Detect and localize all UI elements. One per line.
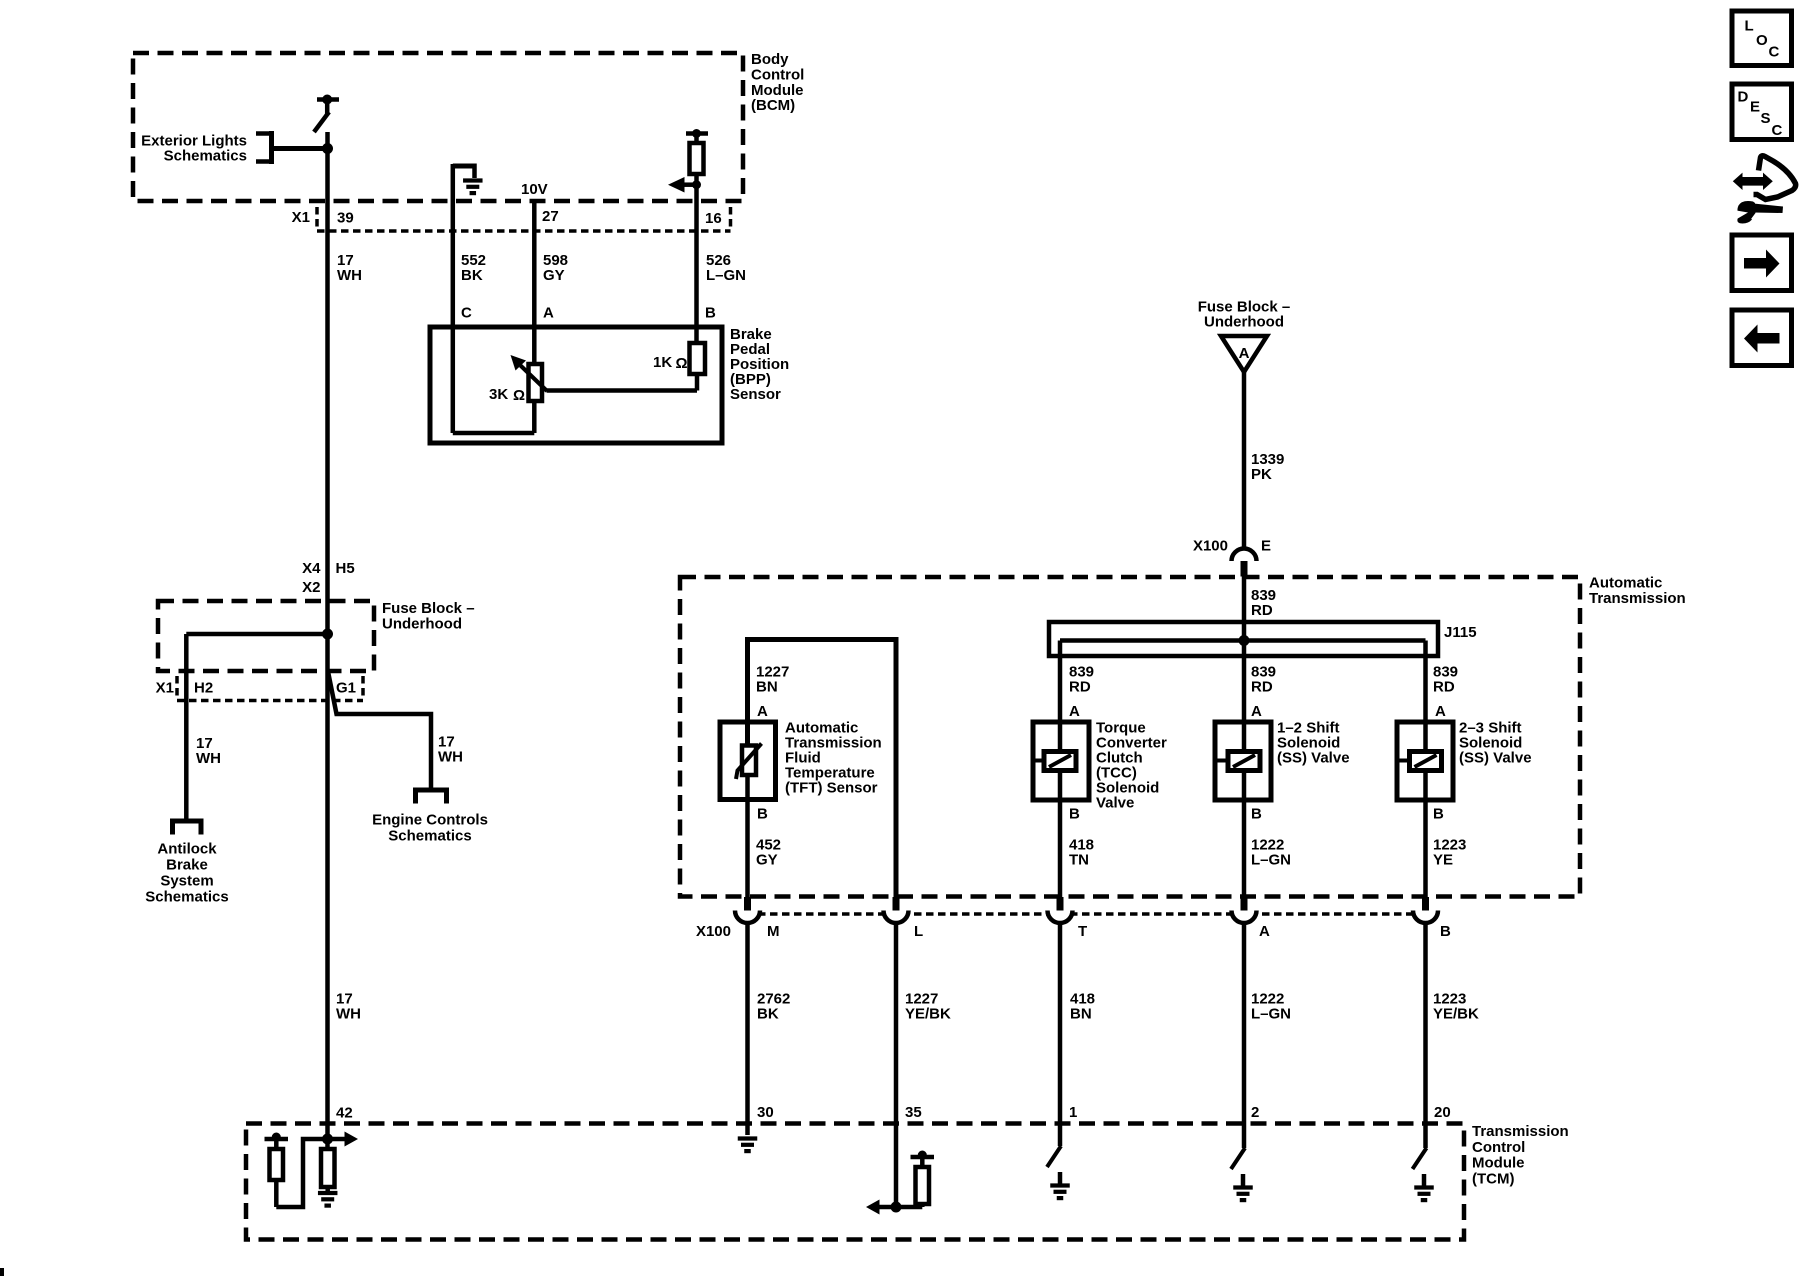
wire: Exterior Lights to switch node: [272, 146, 328, 151]
dashed box: Fuse Block - Underhood: [158, 601, 374, 671]
svg-text:Transmission: Transmission: [1472, 1123, 1569, 1140]
dashed box: Body Control Module (BCM): [133, 53, 743, 201]
svg-text:(TCM): (TCM): [1472, 1170, 1514, 1187]
svg-text:2: 2: [1251, 1104, 1259, 1121]
label: circuit 1227 BN: [756, 664, 789, 696]
svg-text:A: A: [1239, 345, 1250, 362]
label: Engine Controls Schematics: [372, 812, 488, 845]
label: circuit 418 BN: [1070, 991, 1095, 1023]
label: circuit 17 WH (engine controls): [438, 734, 463, 766]
fuse feed triangle A: [1221, 336, 1267, 372]
svg-text:Underhood: Underhood: [1204, 314, 1284, 331]
svg-text:B: B: [1251, 806, 1262, 823]
driver switch at TCM pin 2: [1231, 1148, 1245, 1169]
svg-text:B: B: [705, 305, 716, 322]
svg-text:A: A: [1251, 703, 1262, 720]
wire: 1339 PK vertical: [1242, 372, 1247, 550]
svg-text:A: A: [1259, 923, 1270, 940]
label: circuit 1222 L-GN (lower): [1251, 991, 1291, 1023]
svg-text:RD: RD: [1069, 679, 1091, 696]
label: X1 (fuse block): [156, 680, 174, 697]
driver switch at TCM pin 1: [1047, 1146, 1061, 1167]
svg-text:B: B: [1440, 923, 1451, 940]
label: 1-2 Shift Solenoid (SS) Valve: [1277, 720, 1350, 767]
wire: 1223 YE (2-3 SS pin B to X100 pin B): [1423, 771, 1428, 898]
component: 1-2 Shift Solenoid (SS) Valve: [1215, 722, 1271, 800]
wire: 452 GY (TFT pin B to X100 pin M): [745, 775, 750, 897]
label: pin L: [914, 923, 923, 940]
svg-text:Control: Control: [1472, 1139, 1525, 1156]
wire: fuse block internal to H2: [186, 634, 327, 819]
wire: 552 BK vertical into BPP pin C: [451, 164, 456, 433]
svg-text:L–GN: L–GN: [1251, 1006, 1291, 1023]
svg-text:Sensor: Sensor: [730, 386, 781, 403]
label: 2-3 SS pin B: [1433, 806, 1444, 823]
svg-text:O: O: [1756, 32, 1768, 49]
svg-text:Schematics: Schematics: [164, 148, 247, 165]
svg-text:X100: X100: [696, 923, 731, 940]
svg-text:L: L: [914, 923, 923, 940]
driver switch at TCM pin 20: [1413, 1148, 1427, 1169]
svg-text:A: A: [1069, 703, 1080, 720]
label: pin 39: [337, 210, 354, 227]
label: pin G1: [336, 680, 356, 697]
label: circuit 17 WH (antilock): [196, 735, 221, 767]
svg-text:27: 27: [542, 208, 559, 225]
wire: TCM 35 branch to pull-up resistor: [896, 1204, 922, 1207]
label: pin T: [1078, 923, 1087, 940]
svg-text:Ω: Ω: [676, 355, 688, 372]
label: 1K ohm: [653, 354, 688, 372]
connector symbol X100-M: [735, 897, 760, 923]
svg-text:C: C: [1772, 122, 1783, 139]
svg-text:WH: WH: [196, 750, 221, 767]
svg-text:L–GN: L–GN: [1251, 852, 1291, 869]
label: H5: [336, 560, 355, 577]
connector symbol X100-E: [1232, 548, 1257, 576]
wire: BPP internal B leg: [695, 374, 700, 391]
svg-text:WH: WH: [438, 749, 463, 766]
svg-text:E: E: [1261, 538, 1271, 555]
icon: double arrow with wrench: [1733, 156, 1796, 224]
label: TFT pin B: [757, 806, 768, 823]
label: circuit 598 GY: [543, 252, 568, 284]
supply bar with dot (TCM 35 pull-up): [911, 1151, 935, 1160]
connector X1 bracket (fuse block, dashed): [177, 676, 363, 697]
svg-text:RD: RD: [1433, 679, 1455, 696]
svg-text:42: 42: [336, 1105, 353, 1122]
svg-text:H5: H5: [336, 560, 355, 577]
label: circuit 1227 YE/BK: [905, 991, 951, 1023]
svg-text:H2: H2: [194, 680, 213, 697]
svg-text:C: C: [1769, 44, 1780, 61]
connector symbol X100-L: [884, 897, 909, 923]
wire: 418 TN (TCC pin B to X100 pin T): [1058, 771, 1063, 898]
wire: 1223 YE/BK (X100-B to TCM 20): [1423, 923, 1428, 1148]
svg-text:16: 16: [705, 210, 722, 227]
svg-text:Valve: Valve: [1096, 795, 1134, 812]
component box: TFT sensor: [720, 722, 776, 800]
icon: LOC button: [1732, 11, 1792, 66]
supply bar with dot (TCM 42 pull-up): [265, 1133, 289, 1142]
mark: page edge artifact: [0, 1268, 4, 1276]
svg-text:J115: J115: [1444, 624, 1477, 641]
supply bar with dot at BCM pin 16 circuit: [686, 129, 708, 138]
wire: 1222 L-GN (1-2 SS pin B to X100 pin A): [1242, 771, 1247, 898]
label: TCM pin 30: [757, 1104, 774, 1121]
svg-text:E: E: [1750, 99, 1760, 116]
label: circuit 418 TN: [1069, 837, 1094, 869]
svg-text:WH: WH: [336, 1006, 361, 1023]
svg-text:RD: RD: [1251, 602, 1273, 619]
connector row X100 dashed line: [734, 912, 1437, 916]
wire: 17 WH main vertical (BCM pin 39 to TCM pin 42): [325, 132, 330, 1139]
svg-text:X1: X1: [156, 680, 174, 697]
potentiometer 3K ohm in BPP sensor: [529, 364, 543, 401]
resistor (TCM 35 pull-up): [916, 1157, 930, 1204]
label: circuit 526 L-GN: [706, 252, 746, 284]
label: J115: [1444, 624, 1477, 641]
label: Automatic Transmission Fluid Temperature (TFT) Sensor: [785, 720, 882, 797]
svg-text:Underhood: Underhood: [382, 615, 462, 632]
label: circuit 839 RD (top): [1251, 587, 1276, 619]
label: Transmission Control Module (TCM): [1472, 1123, 1569, 1187]
wire: 1222 L-GN (X100-A to TCM 2): [1242, 923, 1247, 1148]
node: junction dot in fuse block: [322, 629, 333, 640]
svg-text:B: B: [1069, 806, 1080, 823]
label: circuit 1222 L-GN: [1251, 837, 1291, 869]
wire: 598 GY vertical (10V to BPP pin A): [532, 202, 537, 364]
svg-text:Module: Module: [1472, 1155, 1525, 1172]
wire: 839 RD to 1-2 shift solenoid: [1242, 641, 1247, 752]
label: BPP pin A: [543, 305, 554, 322]
svg-text:YE/BK: YE/BK: [905, 1006, 951, 1023]
label: circuit 1223 YE/BK: [1433, 991, 1479, 1023]
resistor (TCM 42 pull-up): [270, 1139, 284, 1207]
resistor at TCM pin 42 (to ground): [321, 1139, 335, 1187]
svg-text:BN: BN: [756, 679, 778, 696]
connector symbol X100-T: [1048, 897, 1073, 923]
svg-text:B: B: [1433, 806, 1444, 823]
svg-text:Antilock: Antilock: [157, 841, 217, 858]
signal arrow at TCM pin 42: [328, 1132, 359, 1147]
svg-text:A: A: [1435, 703, 1446, 720]
label: pin B: [1440, 923, 1451, 940]
svg-text:X4: X4: [302, 560, 321, 577]
svg-text:A: A: [543, 305, 554, 322]
node: junction dot on J115: [1239, 635, 1250, 646]
label: pin H2: [194, 680, 213, 697]
svg-text:39: 39: [337, 210, 354, 227]
label: BPP pin B: [705, 305, 716, 322]
ground symbol inside BCM (552 BK): [453, 164, 483, 194]
svg-text:BK: BK: [757, 1006, 779, 1023]
dashed box: Automatic Transmission: [680, 577, 1580, 897]
label: pin 27: [542, 208, 559, 225]
svg-text:PK: PK: [1251, 466, 1272, 483]
label: X4 / X2 (left): [302, 560, 321, 596]
wire: 418 BN (X100-T to TCM 1): [1058, 923, 1063, 1146]
connector row X1 dashed line: [317, 229, 731, 233]
svg-text:B: B: [757, 806, 768, 823]
svg-text:20: 20: [1434, 1104, 1451, 1121]
label: pin 16: [705, 210, 722, 227]
off-page bracket to Exterior Lights: [256, 131, 272, 164]
off-page bracket to Engine Controls: [416, 790, 447, 804]
svg-text:(SS) Valve: (SS) Valve: [1459, 750, 1532, 767]
svg-text:Schematics: Schematics: [145, 889, 228, 906]
resistor 1K ohm in BPP sensor: [690, 343, 706, 374]
svg-text:1K: 1K: [653, 354, 672, 371]
svg-text:(SS) Valve: (SS) Valve: [1277, 750, 1350, 767]
label: TFT pin A: [757, 703, 768, 720]
svg-text:35: 35: [905, 1104, 922, 1121]
label: 1-2 SS pin A: [1251, 703, 1262, 720]
label: circuit 839 RD (1-2 SS): [1251, 664, 1276, 696]
connector row X1/H2/G1 dashed line: [177, 699, 363, 703]
wire: 839 RD to TCC solenoid: [1058, 641, 1063, 752]
label: 2-3 Shift Solenoid (SS) Valve: [1459, 720, 1532, 767]
svg-text:G1: G1: [336, 680, 356, 697]
label: circuit 452 GY: [756, 837, 781, 869]
component box: Brake Pedal Position (BPP) Sensor: [430, 327, 722, 443]
svg-text:(BCM): (BCM): [751, 97, 795, 114]
svg-text:X1: X1: [292, 209, 310, 226]
label: Fuse Block - Underhood: [382, 600, 475, 632]
connector X1 bracket (dashed): [317, 207, 731, 228]
wire: BPP internal wiper to 1K bottom: [547, 388, 698, 393]
ground symbol at TCM pin 42: [318, 1187, 338, 1206]
svg-text:GY: GY: [543, 267, 565, 284]
ground symbol at TCM pin 1: [1050, 1172, 1070, 1198]
wire: 526 L-GN vertical (BCM pin 16 to BPP pin B): [694, 174, 699, 343]
svg-text:YE: YE: [1433, 852, 1453, 869]
label: pin A: [1259, 923, 1270, 940]
label: TCC pin B: [1069, 806, 1080, 823]
label: Body Control Module (BCM): [751, 51, 804, 114]
svg-text:RD: RD: [1251, 679, 1273, 696]
svg-text:Schematics: Schematics: [388, 828, 471, 845]
label: circuit 2762 BK: [757, 991, 790, 1023]
component: 2-3 Shift Solenoid (SS) Valve: [1397, 722, 1453, 800]
signal arrow at TCM pin 35: [866, 1200, 896, 1215]
svg-text:L: L: [1745, 18, 1754, 35]
label: Exterior Lights Schematics: [141, 133, 247, 165]
splice pack J115 bus bar: [1049, 622, 1438, 656]
svg-text:Engine Controls: Engine Controls: [372, 812, 488, 829]
icon: forward arrow button: [1732, 235, 1792, 291]
label: circuit 1223 YE: [1433, 837, 1466, 869]
label: circuit 17 WH (upper): [337, 252, 362, 284]
svg-text:S: S: [1761, 110, 1771, 127]
svg-text:X2: X2: [302, 579, 320, 596]
label: circuit 17 WH (lower): [336, 991, 361, 1023]
wire: TCM pin 42 pull-up branch: [276, 1139, 327, 1207]
svg-text:L–GN: L–GN: [706, 267, 746, 284]
label: TCM pin 20: [1434, 1104, 1451, 1121]
label: 3K ohm: [489, 386, 525, 404]
label: circuit 552 BK: [461, 252, 486, 284]
label: circuit 1339 PK: [1251, 451, 1284, 483]
label: 1-2 SS pin B: [1251, 806, 1262, 823]
svg-text:1: 1: [1069, 1104, 1077, 1121]
label: TCM pin 2: [1251, 1104, 1259, 1121]
svg-text:30: 30: [757, 1104, 774, 1121]
connector symbol X100-A: [1232, 897, 1257, 923]
label: TCM pin 35: [905, 1104, 922, 1121]
wire: jog G1 to Engine Controls branch: [328, 672, 431, 791]
svg-text:M: M: [767, 923, 780, 940]
node: junction dot at TCM pin 42: [322, 1134, 333, 1145]
label: 10V supply: [521, 181, 548, 198]
signal arrow at BCM pin 16: [668, 177, 701, 193]
component: TCC solenoid valve: [1033, 722, 1089, 800]
svg-text:WH: WH: [337, 267, 362, 284]
label: pin E: [1261, 538, 1271, 555]
svg-text:T: T: [1078, 923, 1087, 940]
svg-text:D: D: [1738, 89, 1749, 106]
svg-text:Ω: Ω: [513, 387, 525, 404]
thermistor symbol in TFT sensor: [736, 744, 762, 780]
label: TCM pin 1: [1069, 1104, 1077, 1121]
node: junction dot at switch output: [322, 143, 333, 154]
label: Brake Pedal Position (BPP) Sensor: [730, 326, 789, 403]
label: Automatic Transmission: [1589, 575, 1686, 607]
svg-text:Brake: Brake: [166, 857, 208, 874]
label: connector X100 (top): [1193, 538, 1228, 555]
label: TCC pin A: [1069, 703, 1080, 720]
label: circuit 839 RD (2-3 SS): [1433, 664, 1458, 696]
label: pin M: [767, 923, 780, 940]
svg-text:BN: BN: [1070, 1006, 1092, 1023]
switch S1 in BCM (brake signal): [314, 95, 339, 133]
svg-text:BK: BK: [461, 267, 483, 284]
label: TCM pin 42: [336, 1105, 353, 1122]
resistor in BCM at pin 16: [690, 134, 704, 175]
svg-text:TN: TN: [1069, 852, 1089, 869]
wire: 2762 BK (X100-M to TCM 30): [745, 923, 750, 1135]
off-page bracket to Antilock Brake: [173, 821, 202, 835]
svg-text:YE/BK: YE/BK: [1433, 1006, 1479, 1023]
wire: 1227 YE/BK (X100-L to TCM 35): [894, 923, 899, 1207]
label: 2-3 SS pin A: [1435, 703, 1446, 720]
svg-text:C: C: [461, 305, 472, 322]
ground symbol at TCM pin 20: [1414, 1174, 1434, 1200]
wiper arrow of 3K potentiometer: [511, 355, 548, 391]
label: circuit 839 RD (TCC): [1069, 664, 1094, 696]
label: BPP pin C: [461, 305, 472, 322]
label: X1: [292, 209, 310, 226]
wire: 1227 BN loop (TFT pin A to X100 pin L): [748, 640, 897, 898]
label: Fuse Block - Underhood (fuse feed): [1198, 299, 1291, 331]
svg-text:X100: X100: [1193, 538, 1228, 555]
label: Antilock Brake System Schematics: [145, 841, 228, 906]
wire: BPP internal C leg bottom: [453, 401, 535, 433]
svg-text:GY: GY: [756, 852, 778, 869]
wire: 839 RD from X100-E to J115: [1242, 577, 1247, 642]
svg-text:(TFT) Sensor: (TFT) Sensor: [785, 780, 878, 797]
node: junction dot at TCM pin 35: [891, 1202, 902, 1213]
wire: 839 RD to 2-3 shift solenoid: [1423, 641, 1428, 752]
svg-text:Transmission: Transmission: [1589, 590, 1686, 607]
icon: back arrow button: [1732, 310, 1792, 366]
icon: DESC button: [1732, 84, 1792, 140]
connector symbol X100-B: [1413, 897, 1438, 923]
svg-text:A: A: [757, 703, 768, 720]
dashed box: Transmission Control Module (TCM): [246, 1124, 1464, 1240]
svg-text:System: System: [160, 873, 213, 890]
svg-text:3K: 3K: [489, 386, 508, 403]
label: Torque Converter Clutch (TCC) Solenoid Valve: [1096, 720, 1167, 812]
ground symbol at TCM pin 30: [738, 1139, 758, 1152]
label: connector X100 (bottom): [696, 923, 731, 940]
svg-text:10V: 10V: [521, 181, 548, 198]
ground symbol at TCM pin 2: [1233, 1174, 1253, 1200]
